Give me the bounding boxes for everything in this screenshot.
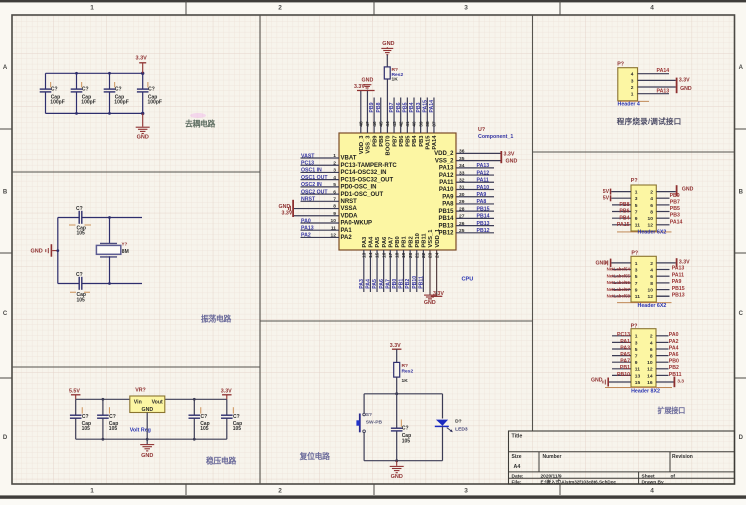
svg-text:GND: GND — [506, 159, 518, 165]
U1 top pin 46 PB9 — [373, 98, 375, 134]
svg-text:C?: C? — [82, 87, 89, 93]
U1 right pin 33 PA12 — [456, 174, 494, 176]
svg-text:105: 105 — [77, 231, 86, 237]
U1 bottom pin 14 PA4 — [369, 250, 371, 292]
title block divider Sheet/DrawnBy — [638, 472, 640, 484]
svg-text:3: 3 — [631, 78, 634, 84]
svg-text:29: 29 — [459, 199, 465, 205]
svg-text:3.3: 3.3 — [677, 379, 684, 385]
junction oscillator top — [108, 216, 111, 219]
U1 top pin 42 PB6 — [400, 98, 402, 134]
svg-text:11: 11 — [635, 367, 640, 373]
wire crystal top lead — [109, 218, 111, 244]
svg-text:PA2: PA2 — [341, 235, 353, 241]
U1 left pin 8 VSSA — [294, 208, 339, 210]
svg-text:PB15: PB15 — [672, 286, 685, 292]
svg-text:100pF: 100pF — [50, 99, 64, 105]
svg-text:37: 37 — [432, 121, 438, 127]
svg-text:PA13: PA13 — [657, 89, 670, 95]
capacitor C9 105 (regulator) — [193, 399, 195, 414]
svg-text:GND: GND — [137, 134, 149, 140]
svg-text:15: 15 — [635, 380, 641, 386]
zone tick top 2|3 — [373, 1, 375, 15]
svg-text:Res2: Res2 — [402, 369, 414, 375]
svg-text:4: 4 — [650, 267, 653, 273]
svg-text:NetLabel54: NetLabel54 — [607, 267, 631, 272]
svg-text:PB2: PB2 — [408, 236, 414, 247]
svg-text:PA0: PA0 — [301, 218, 311, 224]
microcontroller U1 body — [339, 133, 456, 250]
wire P4 pin 11 PB1 — [612, 368, 631, 370]
svg-text:NetLabel57: NetLabel57 — [607, 287, 631, 292]
svg-text:NRST: NRST — [341, 199, 358, 205]
ground decoupling — [142, 113, 144, 126]
resistor R1 Res2 1K (boot0 pulldown) — [384, 67, 390, 79]
wire P4 pin 4 PA2 — [656, 341, 669, 343]
junction decoupling top rail 3.3V — [141, 72, 144, 75]
zone tick bottom 2|3 — [373, 484, 375, 495]
wire GND to R1 — [386, 55, 388, 67]
svg-text:39: 39 — [418, 121, 424, 127]
svg-text:5: 5 — [333, 182, 336, 188]
wire oscillator top rail — [82, 217, 142, 219]
svg-text:PA9: PA9 — [477, 192, 487, 198]
svg-text:105: 105 — [82, 426, 91, 432]
svg-text:25: 25 — [459, 228, 465, 234]
svg-text:7: 7 — [635, 281, 638, 287]
svg-text:9: 9 — [635, 360, 638, 366]
svg-text:PB14: PB14 — [477, 214, 490, 220]
svg-text:11: 11 — [635, 294, 640, 300]
svg-text:P?: P? — [631, 178, 638, 184]
svg-text:11: 11 — [635, 223, 640, 229]
U1 bottom pin 17 PA7 — [389, 250, 391, 292]
U1 right pin 25 PB12 — [456, 232, 494, 234]
svg-text:C?: C? — [148, 87, 155, 93]
svg-text:振荡电路: 振荡电路 — [201, 313, 231, 323]
wire reset loop right upper — [442, 394, 444, 419]
svg-text:SW-PB: SW-PB — [366, 420, 383, 426]
svg-text:5.5V: 5.5V — [69, 389, 80, 395]
capacitor C6 105 (osc bottom) — [78, 277, 80, 290]
svg-text:PB7: PB7 — [392, 136, 398, 147]
svg-text:C?: C? — [76, 206, 83, 212]
wire P2 pin 11 PA15 — [612, 224, 631, 226]
U1 right pin 26 PB13 — [456, 225, 494, 227]
voltage regulator VR1 — [130, 396, 165, 413]
wire P3 pin2 3.3V — [656, 262, 676, 264]
zone tick left A|B — [0, 128, 12, 130]
svg-text:C?: C? — [76, 272, 83, 278]
svg-text:PB13: PB13 — [438, 223, 454, 229]
svg-text:40: 40 — [412, 121, 418, 127]
svg-text:1: 1 — [635, 190, 638, 196]
wire P4 pin 14 PB11 — [656, 374, 669, 376]
svg-text:7: 7 — [333, 197, 336, 203]
svg-text:100pF: 100pF — [114, 99, 128, 105]
svg-text:Sheet: Sheet — [642, 473, 655, 479]
svg-text:PB6: PB6 — [399, 135, 405, 147]
U1 left pin 5 PD0-OSC_IN — [301, 186, 340, 188]
svg-text:VSSA: VSSA — [341, 206, 358, 212]
title block line under Date row — [509, 477, 735, 479]
U1 left pin 2 PC13-TAMPER-RTC — [301, 164, 340, 166]
svg-text:OSC2 OUT: OSC2 OUT — [301, 189, 328, 195]
section divider right column y=152 — [533, 151, 735, 153]
U1 right pin 32 PA11 — [456, 181, 494, 183]
svg-text:45: 45 — [378, 121, 384, 127]
U1 top pin 47 VSS_3 — [366, 90, 368, 133]
svg-text:6: 6 — [650, 274, 653, 280]
wire oscillator bottom rail — [82, 283, 142, 285]
connector P3 Header 6X2 body — [631, 256, 656, 302]
svg-text:38: 38 — [425, 121, 431, 127]
junction oscillator gnd tap — [56, 249, 59, 252]
wire reset gnd stub — [396, 461, 398, 466]
svg-text:GND: GND — [141, 453, 153, 459]
svg-text:PB0: PB0 — [392, 279, 398, 289]
U1 bottom pin 15 PA5 — [376, 250, 378, 292]
U1 right pin 36 VDD_2 — [456, 152, 501, 154]
svg-text:PC13: PC13 — [301, 161, 314, 167]
wire P2 pin2 GND — [656, 191, 676, 193]
svg-text:22: 22 — [421, 252, 427, 258]
svg-text:PC14-OSC32_IN: PC14-OSC32_IN — [341, 170, 387, 176]
svg-text:44: 44 — [385, 121, 391, 127]
wire P4 pin 8 PA6 — [656, 355, 669, 357]
wire oscillator top to cap — [58, 217, 79, 219]
U1 bottom pin 19 PB1 — [403, 250, 405, 292]
svg-text:CPU: CPU — [462, 276, 474, 282]
svg-text:PB7: PB7 — [670, 199, 680, 205]
svg-text:PA6: PA6 — [379, 279, 385, 289]
svg-text:33: 33 — [459, 170, 465, 176]
wire regulator bottom rail — [76, 438, 227, 440]
svg-text:VDD_1: VDD_1 — [435, 228, 441, 247]
junction reg bottom C3 — [193, 438, 196, 441]
U1 bottom pin 18 PB0 — [396, 250, 398, 292]
wire P4 pin 7 PA5 — [612, 355, 631, 357]
U1 left pin 6 PD1-OSC_OUT — [301, 193, 340, 195]
wire P4 pin 12 PB2 — [656, 368, 669, 370]
svg-text:Title: Title — [512, 434, 523, 440]
svg-text:1: 1 — [90, 5, 94, 12]
svg-text:OSC1 OUT: OSC1 OUT — [301, 175, 328, 181]
svg-text:PA8: PA8 — [477, 199, 487, 205]
svg-text:PA0-WKUP: PA0-WKUP — [341, 221, 373, 227]
svg-text:23: 23 — [428, 252, 434, 258]
svg-text:PB10: PB10 — [412, 276, 418, 289]
svg-text:Vin: Vin — [134, 399, 142, 405]
U1 right pin 29 PA8 — [456, 203, 494, 205]
svg-text:24: 24 — [434, 252, 440, 258]
svg-text:PB10: PB10 — [415, 233, 421, 248]
svg-text:6: 6 — [650, 347, 653, 353]
U1 top pin 39 PB3 — [420, 98, 422, 134]
crystal Y1 8M — [100, 242, 117, 244]
svg-text:GND: GND — [391, 474, 403, 480]
svg-text:PB3: PB3 — [419, 135, 425, 147]
svg-text:31: 31 — [459, 185, 465, 191]
svg-text:VSS_1: VSS_1 — [428, 229, 434, 248]
svg-text:LED3: LED3 — [455, 426, 468, 432]
wire P4 pin 13 PB10 — [612, 374, 631, 376]
title block divider Number|Revision — [669, 452, 671, 472]
connector P1 Header 4 body — [618, 68, 638, 101]
svg-text:48: 48 — [359, 121, 365, 127]
svg-text:Component_1: Component_1 — [478, 134, 513, 140]
U1 right pin 27 PB14 — [456, 217, 494, 219]
U1 left pin 9 VDDA — [294, 215, 339, 217]
svg-text:5V: 5V — [603, 189, 610, 195]
svg-text:PA11: PA11 — [672, 272, 684, 278]
wire P3 pin 8 PA9 — [656, 282, 669, 284]
svg-text:105: 105 — [402, 439, 411, 445]
U1 bottom pin 16 PA6 — [383, 250, 385, 292]
U1 bottom pin 21 PB10 — [416, 250, 418, 292]
wire P2 pin 7 PB6 — [612, 211, 631, 213]
svg-text:PA6: PA6 — [669, 352, 679, 358]
svg-text:5: 5 — [635, 203, 638, 209]
svg-text:4: 4 — [650, 340, 653, 346]
svg-text:PB8: PB8 — [619, 202, 629, 208]
svg-text:21: 21 — [414, 252, 420, 258]
svg-text:8M: 8M — [122, 249, 129, 255]
U1 left pin 7 NRST — [301, 200, 340, 202]
svg-text:PB5: PB5 — [670, 206, 680, 212]
svg-text:PB15: PB15 — [438, 209, 454, 215]
svg-text:C: C — [3, 311, 8, 317]
svg-text:扩展接口: 扩展接口 — [658, 406, 686, 415]
svg-text:13: 13 — [635, 373, 641, 379]
ground P2 pin2 — [676, 185, 678, 196]
svg-text:VR?: VR? — [135, 387, 146, 393]
svg-text:105: 105 — [233, 426, 242, 432]
svg-text:程序烧录/调试接口: 程序烧录/调试接口 — [617, 116, 682, 126]
svg-text:BOOT0: BOOT0 — [386, 136, 392, 156]
zone tick right B|C — [735, 252, 746, 254]
svg-text:4: 4 — [333, 175, 336, 181]
svg-text:Date:: Date: — [512, 473, 524, 479]
svg-text:36: 36 — [459, 149, 465, 155]
U1 top pin 37 PA14 — [433, 98, 435, 134]
svg-text:6: 6 — [650, 203, 653, 209]
svg-text:9: 9 — [333, 211, 336, 217]
wire reset loop top rail — [364, 393, 442, 395]
svg-text:PA2: PA2 — [301, 233, 311, 239]
svg-text:PB15: PB15 — [477, 206, 490, 212]
wire P4 pin 6 PA4 — [656, 348, 669, 350]
svg-text:C?: C? — [51, 87, 58, 93]
svg-text:R?: R? — [402, 363, 409, 369]
svg-text:PB2: PB2 — [405, 279, 411, 289]
U1 left pin 4 PC15-OSC32_OUT — [301, 179, 340, 181]
svg-text:1K: 1K — [402, 378, 409, 384]
wire P2 pin12 — [656, 224, 669, 226]
svg-text:C?: C? — [82, 414, 89, 420]
svg-text:42: 42 — [398, 121, 404, 127]
power 3.3V VDD_2 pin36 — [500, 151, 502, 163]
svg-text:A: A — [739, 65, 744, 71]
svg-text:9: 9 — [635, 288, 638, 294]
label decoupling circuit (Chinese) — [190, 113, 206, 118]
svg-text:47: 47 — [365, 121, 371, 127]
svg-text:19: 19 — [401, 252, 407, 258]
wire P4 pin 10 PB0 — [656, 361, 669, 363]
U1 top pin 45 PB8 — [380, 98, 382, 134]
svg-text:稳压电路: 稳压电路 — [206, 456, 236, 466]
svg-text:3.3V: 3.3V — [504, 152, 515, 158]
wire P2 pin 9 PB4 — [612, 217, 631, 219]
svg-text:GND: GND — [424, 300, 436, 306]
U1 top pin 41 PB5 — [406, 98, 408, 134]
U1 left pin 3 PC14-OSC32_IN — [301, 171, 340, 173]
svg-text:PB6: PB6 — [619, 209, 629, 215]
svg-text:PA10: PA10 — [439, 187, 454, 193]
svg-text:B: B — [739, 190, 744, 196]
junction reg top C3 — [193, 398, 196, 401]
svg-text:Drawn By: Drawn By — [642, 479, 664, 485]
svg-text:NRST: NRST — [301, 197, 316, 203]
wire oscillator left vertical — [57, 218, 59, 284]
wire P2 pin 4 PB7 — [656, 197, 669, 199]
svg-text:PB13: PB13 — [477, 221, 490, 227]
svg-text:E:\嵌入式\A\stm32f103c8t6.SchDoc: E:\嵌入式\A\stm32f103c8t6.SchDoc — [541, 478, 617, 485]
svg-text:PB9: PB9 — [369, 102, 375, 112]
U1 left pin 1 VBAT — [301, 157, 340, 159]
capacitor C3 100pF — [109, 73, 111, 88]
svg-text:Vout: Vout — [152, 399, 163, 405]
svg-text:12: 12 — [647, 367, 653, 373]
wire P1 pin1 PA13 — [638, 93, 670, 95]
wire reset loop left upper — [363, 394, 365, 414]
svg-text:C?: C? — [109, 414, 116, 420]
svg-text:1K: 1K — [392, 77, 399, 83]
svg-text:16: 16 — [381, 252, 387, 258]
LED D1 LED3 — [436, 420, 448, 426]
capacitor C10 105 (regulator) — [226, 399, 228, 414]
svg-text:11: 11 — [331, 225, 336, 231]
svg-text:PA3: PA3 — [359, 279, 365, 289]
svg-text:S?: S? — [366, 412, 372, 418]
wire oscillator bottom to cap — [58, 283, 79, 285]
svg-text:VSS_2: VSS_2 — [435, 158, 454, 164]
line under P2 — [617, 231, 672, 233]
svg-text:5V: 5V — [603, 196, 610, 202]
svg-text:PA11: PA11 — [439, 180, 454, 186]
svg-text:43: 43 — [392, 121, 398, 127]
svg-text:3.3V: 3.3V — [282, 211, 293, 217]
svg-text:3.3V: 3.3V — [679, 78, 690, 84]
svg-text:GND: GND — [31, 249, 43, 255]
svg-text:PB5: PB5 — [406, 135, 412, 147]
svg-text:8: 8 — [650, 209, 653, 215]
svg-text:12: 12 — [331, 233, 337, 239]
wire P4 pin16 3.3V — [656, 381, 674, 383]
U1 top pin 44 BOOT0 — [386, 79, 388, 133]
svg-text:3.3V: 3.3V — [221, 389, 232, 395]
svg-text:6: 6 — [333, 189, 336, 195]
svg-text:PA5: PA5 — [620, 352, 630, 358]
svg-text:U?: U? — [478, 127, 485, 133]
wire regulator gnd pin down — [146, 413, 148, 445]
svg-text:PA12: PA12 — [477, 170, 490, 176]
svg-text:8: 8 — [333, 204, 336, 210]
svg-text:OSC1 IN: OSC1 IN — [301, 168, 322, 174]
svg-text:D: D — [739, 435, 744, 441]
svg-text:VSS_3: VSS_3 — [366, 135, 372, 154]
U1 bottom pin 23 VSS_1 — [429, 250, 431, 295]
svg-text:7: 7 — [635, 209, 638, 215]
svg-text:41: 41 — [405, 121, 411, 127]
svg-text:PC13-TAMPER-RTC: PC13-TAMPER-RTC — [341, 163, 398, 169]
power 3.3V P4 pin16 — [674, 377, 676, 388]
junction decoupling bottom rail GND — [141, 112, 144, 115]
wire P2 pin 6 PB5 — [656, 204, 669, 206]
capacitor C7 105 (regulator) — [75, 399, 77, 414]
svg-text:4: 4 — [650, 488, 654, 495]
svg-text:C?: C? — [115, 87, 122, 93]
svg-text:4: 4 — [631, 72, 634, 78]
svg-text:12: 12 — [648, 294, 654, 300]
outer scan border top — [0, 0, 746, 2]
wire reset loop bottom rail — [364, 460, 442, 462]
svg-text:GND: GND — [591, 378, 603, 384]
svg-text:去耦电路: 去耦电路 — [185, 118, 215, 128]
svg-text:32: 32 — [459, 177, 465, 183]
svg-text:PA14: PA14 — [432, 135, 438, 150]
wire P3 pin 11 NetLabel58 — [612, 295, 631, 297]
connector P4 Header 8X2 body — [631, 329, 656, 387]
svg-text:C?: C? — [233, 414, 240, 420]
svg-text:14: 14 — [647, 373, 653, 379]
svg-text:PB13: PB13 — [672, 292, 685, 298]
svg-text:105: 105 — [109, 426, 118, 432]
wire P1 pin2 GND — [638, 86, 676, 88]
switch S1 SW-PB — [363, 413, 366, 416]
svg-text:2: 2 — [650, 334, 653, 340]
U1 left pin 10 PA0-WKUP — [301, 222, 340, 224]
U1 top pin 40 PB4 — [413, 98, 415, 134]
svg-text:PA7: PA7 — [388, 237, 394, 248]
svg-text:PA11: PA11 — [477, 178, 489, 184]
wire P4 pin 1 PC13 — [612, 335, 631, 337]
wire P3 pin 9 NetLabel57 — [612, 289, 631, 291]
svg-text:PA15: PA15 — [422, 100, 428, 113]
svg-text:PD0-OSC_IN: PD0-OSC_IN — [341, 185, 377, 191]
wire P3 pin 4 PA13 — [656, 269, 669, 271]
svg-text:105: 105 — [77, 298, 86, 304]
svg-text:3: 3 — [635, 340, 638, 346]
svg-text:PA13: PA13 — [672, 266, 685, 272]
svg-text:15: 15 — [375, 252, 381, 258]
svg-text:PB6: PB6 — [396, 102, 402, 112]
svg-text:D: D — [3, 435, 8, 441]
capacitor C9 105 (reset) — [396, 394, 398, 428]
svg-text:3.3V: 3.3V — [433, 291, 444, 297]
svg-text:2020/11/9: 2020/11/9 — [541, 473, 562, 479]
svg-text:PA3: PA3 — [362, 236, 368, 248]
svg-text:28: 28 — [459, 206, 465, 212]
svg-text:GND: GND — [382, 41, 394, 47]
junction reg bottom gnd — [146, 438, 149, 441]
svg-text:PA8: PA8 — [442, 202, 454, 208]
svg-text:13: 13 — [362, 252, 368, 258]
svg-text:3.3V: 3.3V — [136, 55, 148, 61]
U1 left pin 12 PA2 — [301, 236, 340, 238]
wire P2 pin 5 PB8 — [612, 204, 631, 206]
U1 right pin 31 PA10 — [456, 189, 494, 191]
